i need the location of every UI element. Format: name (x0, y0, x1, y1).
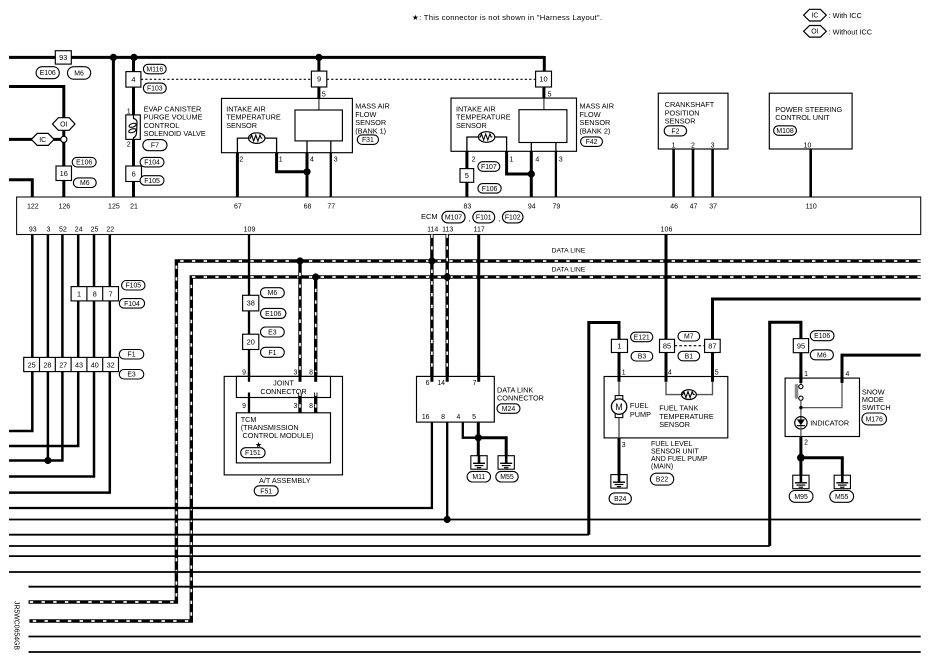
junction dot wires 3/52 (44, 457, 51, 464)
connector box 1-8-7 (71, 287, 118, 301)
connector M55 oval b (830, 490, 854, 502)
svg-text:47: 47 (690, 203, 698, 210)
svg-text:24: 24 (75, 227, 83, 234)
wire pin3 to B24 ground (618, 438, 621, 475)
JC top pin ticks (248, 372, 250, 382)
svg-text:114: 114 (427, 227, 438, 234)
svg-text:1: 1 (279, 157, 283, 164)
svg-text:4: 4 (668, 369, 672, 376)
wire ECM22 (9, 235, 110, 493)
svg-text:79: 79 (553, 203, 561, 210)
wire ECM77 inner lead (330, 141, 332, 153)
wire ECM94 inner lead (530, 143, 532, 152)
wire ECM52 (9, 235, 62, 461)
svg-text:1: 1 (804, 371, 808, 378)
DLC top pin ticks (430, 372, 433, 382)
svg-text:3: 3 (711, 142, 715, 149)
MAF bank1 outer box (222, 98, 353, 152)
resistor IAT bank2 (478, 132, 494, 143)
svg-text:E106: E106 (265, 311, 281, 318)
connector B22 oval (650, 473, 673, 485)
resistor IAT bank1 (249, 133, 265, 144)
dashed branch canH to JC3 (298, 261, 301, 382)
svg-text:SOLENOID VALVE: SOLENOID VALVE (144, 129, 206, 138)
svg-text:67: 67 (234, 203, 242, 210)
svg-text:4: 4 (310, 157, 314, 164)
svg-text:8: 8 (93, 290, 97, 299)
svg-text:8: 8 (441, 414, 445, 421)
junction dot 114/canH (428, 257, 435, 264)
svg-text:3: 3 (293, 369, 297, 376)
svg-text:9: 9 (317, 75, 321, 84)
svg-text:109: 109 (244, 227, 256, 234)
svg-text:2: 2 (804, 440, 808, 447)
connector M55 oval a (496, 471, 518, 482)
solenoid coil EVAP (126, 115, 141, 139)
svg-text:40: 40 (91, 360, 99, 369)
svg-text:22: 22 (106, 227, 114, 234)
wire ECM79 inner lead (555, 143, 557, 152)
svg-text:8: 8 (309, 369, 313, 376)
svg-text:: With ICC: : With ICC (829, 11, 862, 20)
connector F105 oval left (122, 281, 145, 291)
svg-text:IC: IC (39, 137, 46, 144)
svg-text:5: 5 (548, 91, 552, 98)
wire long run y652 (29, 651, 921, 653)
svg-text:SWITCH: SWITCH (862, 403, 891, 412)
connector F104 oval left (119, 299, 144, 309)
svg-text:10: 10 (539, 75, 547, 84)
wire ECM77 (330, 153, 332, 197)
svg-text:SENSOR: SENSOR (659, 420, 690, 429)
svg-text:F1: F1 (268, 350, 276, 357)
svg-text:M11: M11 (472, 474, 485, 481)
wire to M55 ground b (801, 458, 842, 476)
wire DLC4 down (463, 422, 479, 438)
hexagon IC on wire (31, 133, 54, 145)
connector F151 oval (241, 448, 265, 458)
svg-text:25: 25 (91, 227, 99, 234)
wire box9 top (317, 57, 320, 71)
svg-text:93: 93 (29, 227, 37, 234)
connector M176 oval (862, 413, 887, 425)
wire ECM67 sensor lead (237, 138, 248, 153)
svg-text:F101: F101 (476, 215, 492, 222)
svg-text:94: 94 (528, 203, 536, 210)
connector box 6 (126, 166, 142, 182)
connector M24 oval (497, 404, 520, 414)
svg-text:F51: F51 (260, 488, 272, 495)
fuel unit box (604, 377, 728, 438)
svg-text:113: 113 (442, 227, 453, 234)
snow mode switch box (785, 378, 859, 436)
wire resistor to 68 branch (265, 138, 277, 153)
connector box 4 (126, 72, 141, 88)
wire fuel temp sensor leads (666, 382, 682, 395)
connector box 93 on bus (55, 51, 71, 64)
legend hexagon OI (804, 26, 827, 38)
svg-text:SENSOR UNIT: SENSOR UNIT (651, 449, 700, 456)
connector E3 oval left (119, 370, 144, 380)
wire fuel pump internal top (618, 382, 620, 396)
svg-text:M24: M24 (502, 406, 516, 413)
switch internals (800, 383, 802, 384)
svg-text:F106: F106 (482, 186, 498, 193)
junction dot DLC4/5 (475, 434, 482, 441)
svg-text:38: 38 (247, 299, 255, 308)
svg-text:F151: F151 (245, 450, 261, 457)
svg-text:(MAIN): (MAIN) (651, 464, 673, 471)
wire DLC16 down (9, 422, 432, 508)
dashed wire ECM113 to DLC14 (446, 235, 449, 382)
connector E106 oval mid (261, 308, 286, 318)
connector M116 oval (143, 64, 166, 74)
svg-text:★: This connector is not shown: ★: This connector is not shown in "Harne… (412, 13, 602, 22)
connector B3 oval (631, 352, 653, 362)
svg-text:ECM: ECM (421, 212, 438, 221)
wire ECM110 (809, 149, 812, 197)
svg-text:F104: F104 (144, 160, 160, 167)
connector M7 oval (678, 332, 700, 342)
connector M6 oval snow (810, 350, 833, 360)
svg-text:1: 1 (672, 142, 676, 149)
connector F1 oval mid (261, 347, 285, 357)
svg-text:4: 4 (456, 414, 460, 421)
svg-text:52: 52 (59, 227, 67, 234)
svg-text:126: 126 (58, 203, 70, 210)
wire ECM46 (672, 149, 675, 197)
wire long run y572 (9, 571, 921, 573)
connector F42 oval (581, 137, 603, 147)
svg-text:B24: B24 (614, 496, 626, 503)
TCM box (236, 413, 330, 463)
svg-text:28: 28 (43, 360, 51, 369)
junction dot 94 branch (528, 170, 535, 177)
svg-text:M6: M6 (80, 180, 90, 187)
junction dot 68 branch (303, 168, 310, 175)
ground M55 a (498, 456, 514, 470)
svg-text:5: 5 (322, 91, 326, 98)
svg-text:14: 14 (437, 380, 445, 387)
wire 5 bank2 (542, 87, 545, 98)
ECM box (17, 197, 921, 235)
svg-text:3: 3 (46, 227, 50, 234)
connector F103 oval (143, 83, 166, 93)
svg-text:FUEL: FUEL (630, 401, 649, 410)
connector M95 oval (789, 490, 813, 502)
wire ECM79 (555, 151, 557, 197)
MAF bank2 outer box (451, 98, 577, 151)
svg-text:2: 2 (127, 141, 131, 148)
snow pin ticks (799, 374, 802, 384)
wire: IC branch (9, 138, 61, 141)
svg-text:1: 1 (509, 157, 513, 164)
wire long run y587 (29, 586, 921, 588)
wire ECM47 (692, 149, 695, 197)
wire resistor to 94 branch (495, 137, 507, 151)
svg-text:37: 37 (709, 203, 717, 210)
svg-text:25: 25 (28, 360, 36, 369)
wire ECM117 to DLC7 (477, 235, 480, 382)
svg-text:F105: F105 (144, 178, 160, 185)
svg-text:M6: M6 (817, 352, 827, 359)
svg-text:E121: E121 (634, 334, 650, 341)
svg-text:93: 93 (59, 53, 67, 62)
wire DLC5 down (477, 422, 480, 456)
connector B1 oval (678, 351, 700, 361)
wire feed to box1 (589, 323, 619, 535)
svg-text:32: 32 (107, 360, 115, 369)
svg-text:OI: OI (60, 121, 67, 128)
svg-text:B3: B3 (638, 354, 647, 361)
fuel pin ticks (618, 372, 621, 382)
svg-text:2: 2 (691, 142, 695, 149)
svg-text:4: 4 (846, 371, 850, 378)
junction dot bus/125 (110, 54, 117, 61)
svg-text:AND FUEL PUMP: AND FUEL PUMP (651, 456, 708, 463)
wire box85 to pin4 (665, 353, 668, 382)
svg-text:6: 6 (132, 169, 136, 178)
svg-text:85: 85 (663, 342, 671, 351)
ground B24 (611, 475, 627, 489)
wire: main power bus (9, 56, 544, 59)
svg-text:7: 7 (473, 380, 477, 387)
svg-text:9: 9 (242, 369, 246, 376)
wire ECM37 (711, 149, 714, 197)
svg-text:95: 95 (797, 341, 805, 350)
dashed wire JC8 to TCM (314, 393, 317, 418)
svg-text:1: 1 (127, 108, 131, 115)
wire long run y534 (fuel feed, drawn above) left part (9, 534, 589, 536)
fuel pump motor (615, 396, 623, 401)
svg-text:M7: M7 (684, 334, 694, 341)
svg-text:16: 16 (60, 169, 68, 178)
svg-text:M107: M107 (445, 215, 462, 222)
svg-text:2: 2 (239, 157, 243, 164)
svg-text:4: 4 (535, 157, 539, 164)
wire: 125 drop (112, 57, 115, 197)
connector box 1 fuel (611, 339, 627, 352)
svg-text:F103: F103 (147, 86, 163, 93)
connector F7 oval (143, 140, 167, 151)
svg-text:(BANK 2): (BANK 2) (580, 126, 611, 135)
svg-text:E3: E3 (268, 329, 277, 336)
svg-text:F31: F31 (362, 137, 374, 144)
wire ECM94 (530, 151, 533, 197)
svg-text:M95: M95 (794, 494, 808, 501)
wire: EVAP solenoid wire 21 (132, 57, 135, 197)
wire: 122 feed (9, 180, 32, 197)
connector box 25-28-27-43-40-32 (24, 357, 119, 371)
svg-text:OI: OI (811, 29, 818, 36)
wire box95 to switch (799, 353, 802, 379)
svg-text:F107: F107 (481, 164, 497, 171)
svg-text:20: 20 (247, 337, 255, 346)
svg-text:16: 16 (422, 414, 430, 421)
A/T assembly outer box (224, 376, 342, 475)
resistor fuel tank temp (682, 390, 697, 400)
svg-text:SENSOR: SENSOR (226, 121, 257, 130)
wire 5 bank2 gray (543, 98, 545, 110)
svg-text:3: 3 (293, 403, 297, 410)
connector E106 oval (36, 67, 59, 79)
wire JC9 to TCM (248, 393, 250, 418)
svg-text:(BANK 1): (BANK 1) (355, 126, 386, 135)
hexagon OI on wire (53, 118, 76, 131)
connector box 87 (705, 339, 721, 352)
wire ECM83 sensor lead (467, 137, 479, 151)
svg-text:CONNECTOR: CONNECTOR (497, 393, 544, 402)
svg-text:1: 1 (617, 342, 621, 351)
dashed link box4 to box9 (141, 78, 312, 80)
svg-text:A/T ASSEMBLY: A/T ASSEMBLY (259, 476, 311, 485)
connector F104 oval (140, 157, 164, 167)
dashed branch canL to JC8 (314, 277, 317, 382)
svg-text:M: M (615, 402, 622, 412)
wire ECM3 (47, 235, 50, 461)
svg-text:: Without ICC: : Without ICC (829, 27, 872, 36)
wire sw pin2 down (799, 437, 802, 476)
ground M95 (793, 475, 809, 489)
wire right edge to sw pin4 (842, 355, 921, 378)
svg-text:F1: F1 (128, 352, 136, 359)
wire to M55 ground a (478, 438, 506, 457)
svg-text:M176: M176 (866, 416, 883, 423)
svg-text:117: 117 (474, 227, 485, 234)
svg-text:M55: M55 (500, 474, 514, 481)
svg-text:,: , (498, 216, 500, 223)
wire ECM68 inner lead (306, 141, 308, 153)
wire: feed to OI/IC branch (9, 87, 64, 198)
connector M6 oval mid (261, 288, 285, 298)
connector box 16 (56, 166, 72, 181)
connector B24 oval (609, 493, 631, 504)
dashed wire ECM114 to DLC6 (430, 235, 433, 382)
wire fuel pump internal bottom (618, 418, 620, 438)
svg-text:F104: F104 (124, 301, 140, 308)
svg-text:46: 46 (670, 203, 678, 210)
svg-text:M6: M6 (268, 290, 278, 297)
DLC box (417, 376, 495, 422)
wire ECM67 (236, 153, 239, 197)
connector box 85 (660, 339, 675, 352)
junction dot bus/21 (130, 54, 137, 61)
svg-text:77: 77 (327, 203, 335, 210)
legend hexagon IC (804, 9, 827, 21)
svg-text:M116: M116 (146, 67, 163, 74)
junction dot 113/canL (444, 273, 451, 280)
svg-text:M108: M108 (776, 128, 793, 135)
indicator LED (795, 417, 807, 429)
wire ECM109 (248, 235, 250, 382)
svg-text:F2: F2 (671, 128, 679, 135)
wire 5 bank1 gray (318, 98, 320, 110)
dashed link box9 to box10 (327, 78, 536, 80)
connector box 95 (793, 339, 808, 353)
connector E106 oval snow (810, 331, 834, 341)
wire long run y519 (9, 519, 921, 521)
svg-text:110: 110 (806, 203, 817, 210)
svg-text:M55: M55 (835, 494, 849, 501)
svg-text:JR5WC0654GB: JR5WC0654GB (13, 601, 20, 650)
dashed wire JC3 to TCM (298, 393, 301, 418)
svg-text:1: 1 (622, 369, 626, 376)
svg-text:SENSOR: SENSOR (456, 121, 487, 130)
svg-text:E106: E106 (76, 160, 92, 167)
wire ECM25 (9, 235, 94, 477)
dashed link 85-87 (675, 345, 705, 347)
svg-text:21: 21 (130, 203, 138, 210)
wire long run y546 (snow feed) left part (9, 545, 770, 547)
ground M11 (471, 456, 487, 470)
connector E3 oval mid (261, 327, 285, 337)
svg-text:PUMP: PUMP (630, 410, 651, 419)
MAF bank2 inner box (519, 110, 567, 143)
junction dot snow grounds (797, 454, 805, 462)
wire 5 bank1 (317, 87, 320, 98)
svg-text:B22: B22 (656, 477, 668, 484)
connector F105 oval (140, 176, 164, 186)
svg-text:,: , (469, 216, 471, 223)
svg-text:1: 1 (77, 290, 81, 299)
svg-text:43: 43 (75, 360, 83, 369)
wire: bus drop to box 10 (543, 56, 546, 71)
svg-text:F102: F102 (505, 215, 521, 222)
MAF bank1 inner box (295, 110, 342, 141)
svg-text:FUEL LEVEL: FUEL LEVEL (651, 441, 692, 448)
connector M6 oval (68, 67, 91, 80)
junction dot JC3/canH (296, 257, 303, 264)
wire ECM68 (306, 153, 309, 197)
wire long run y556 (9, 555, 921, 557)
connector F51 oval (254, 486, 278, 496)
joint connector box (236, 376, 330, 397)
svg-text:F42: F42 (586, 139, 598, 146)
svg-text:SENSOR: SENSOR (665, 117, 696, 126)
svg-text:9: 9 (242, 403, 246, 410)
connector F106 oval (478, 184, 501, 194)
connector box 20 (243, 334, 259, 349)
svg-text:E106: E106 (814, 333, 830, 340)
svg-text:68: 68 (304, 203, 312, 210)
power steering box (769, 93, 852, 149)
connector E121 oval (631, 332, 653, 342)
svg-text:F105: F105 (125, 283, 141, 290)
svg-text:10: 10 (804, 142, 812, 149)
svg-text:125: 125 (108, 203, 120, 210)
connector box 38 (243, 295, 259, 311)
svg-text:3: 3 (622, 442, 626, 449)
connector F31 oval (357, 135, 378, 145)
svg-text:M6: M6 (74, 70, 84, 77)
wire feed to box95 (770, 322, 801, 546)
svg-text:3: 3 (559, 157, 563, 164)
svg-text:INDICATOR: INDICATOR (810, 419, 849, 428)
wire ECM93 (9, 235, 32, 432)
svg-text:83: 83 (464, 203, 472, 210)
connector box 9 (311, 71, 326, 87)
junction dot bus/9 (315, 54, 322, 61)
connector F2 oval (664, 126, 686, 136)
connector box 5 on 83 (460, 169, 474, 183)
connector F107 oval (478, 162, 500, 172)
svg-text:106: 106 (661, 227, 673, 234)
svg-text:CONTROL UNIT: CONTROL UNIT (775, 113, 830, 122)
connector M11 oval (467, 471, 490, 482)
wire box1 to pin1 (618, 353, 621, 382)
svg-text:2: 2 (472, 157, 476, 164)
svg-text:27: 27 (59, 360, 67, 369)
